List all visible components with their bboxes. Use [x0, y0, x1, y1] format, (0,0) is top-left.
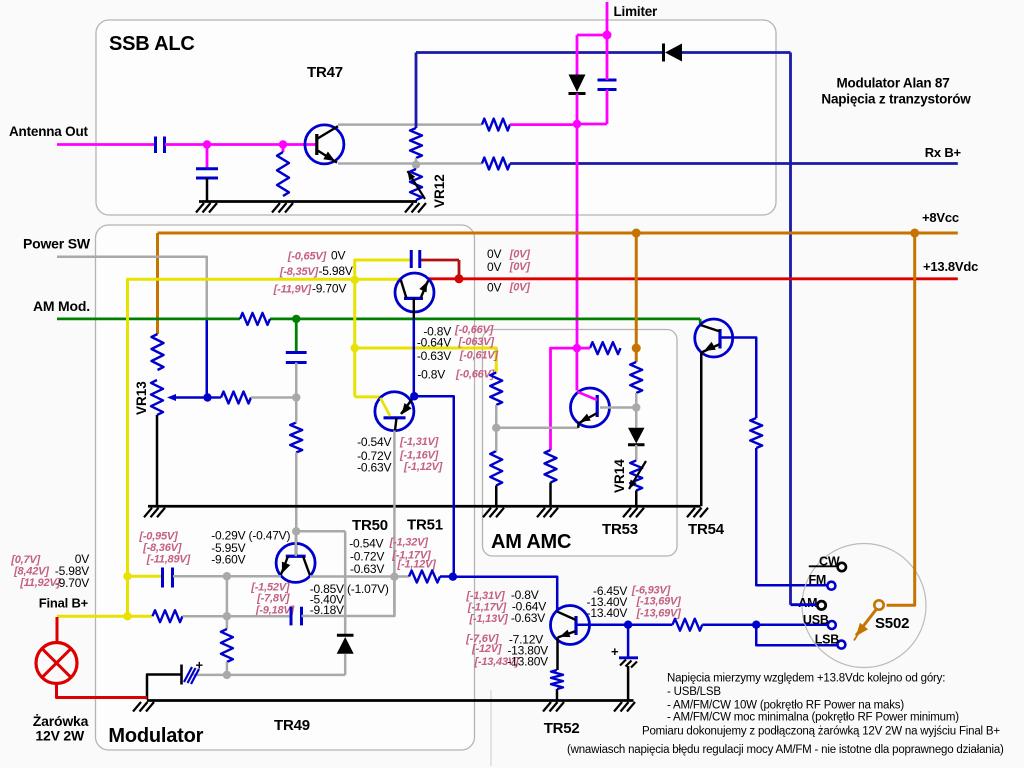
wire antenna node (magenta) [165, 143, 317, 146]
wire TR49 collector [295, 531, 298, 556]
svg-text:12V 2W: 12V 2W [35, 728, 85, 744]
wire yellow bus mid drop [353, 280, 356, 397]
svg-text:-0.63V: -0.63V [357, 460, 391, 474]
resistor R13 [630, 362, 642, 393]
wire C2 to ground (black) [206, 178, 209, 202]
svg-text:-0.54V: -0.54V [349, 537, 383, 551]
wire C9 stub (blue) [627, 625, 630, 658]
wire R9 to node (gray) [183, 615, 292, 618]
wire row1 to TR49 emitter [227, 575, 281, 578]
switch S502 outline [802, 544, 926, 668]
wire blue right drop [789, 53, 792, 605]
wire TR47 collector (gray) [338, 123, 482, 126]
svg-text:-9.70V: -9.70V [312, 282, 346, 296]
svg-text:+: + [611, 644, 619, 659]
diode D4 (points down) [628, 428, 645, 444]
svg-text:-5.98V: -5.98V [319, 264, 353, 278]
svg-text:[-1,31V]: [-1,31V] [465, 590, 505, 602]
wire green stub to C5 [295, 319, 298, 353]
svg-text:0V: 0V [487, 281, 501, 295]
capacitor C1 antenna series [154, 137, 157, 154]
svg-text:FM: FM [809, 573, 827, 587]
terminal USB [828, 621, 836, 629]
wire TR50 collector L (blue) [414, 396, 454, 576]
svg-text:+8Vcc: +8Vcc [922, 210, 959, 225]
node row1 gray [223, 572, 231, 580]
wire orange to S502 [887, 233, 915, 605]
wire limiter branch B (magenta) [606, 35, 609, 80]
svg-text:Napięcia mierzymy względem +13: Napięcia mierzymy względem +13.8Vdc kole… [667, 673, 945, 685]
svg-text:-0.63V: -0.63V [511, 611, 545, 625]
ground symbol TR54 [687, 508, 695, 518]
box Modulator section [96, 225, 475, 750]
wire magenta branch left [551, 348, 577, 450]
switch S502 common [874, 600, 883, 609]
wire orange drop left [156, 233, 159, 334]
svg-text:[-063V]: [-063V] [458, 336, 495, 348]
wire R19 to USB [702, 623, 827, 626]
svg-text:[-7,8V]: [-7,8V] [256, 593, 290, 605]
node TR50 collector [410, 392, 418, 400]
node yellow row2 [123, 612, 131, 620]
wire limiter bottom horizontal (magenta) [577, 123, 607, 126]
wire VR14 to ground [635, 491, 638, 507]
wire C7 to corner (gray) [302, 577, 395, 616]
svg-text:[0V]: [0V] [509, 282, 531, 294]
potentiometer VR13 [151, 380, 163, 415]
ground rail main [148, 505, 701, 508]
wire R11 to row3 [226, 662, 229, 675]
terminal LSB [837, 641, 845, 649]
svg-text:0V: 0V [487, 260, 501, 274]
node wiper junction [203, 393, 211, 401]
resistor R5 on AM line [240, 313, 270, 325]
wire blue to TR52 collector [453, 577, 557, 612]
node row2 gray [223, 612, 231, 620]
wire Power SW (gray) [57, 257, 207, 319]
wire TR53 collector (magenta) [576, 348, 579, 390]
wire Power SW lower (blue) [206, 319, 209, 398]
wire junction1 to C2 (magenta) [206, 145, 209, 169]
ground symbol TR52 [543, 702, 551, 712]
wire yellow bus [128, 279, 401, 616]
node yellow TR48 branch [351, 276, 359, 284]
svg-text:[-0,66V]: [-0,66V] [455, 369, 495, 381]
svg-text:[-0,65V]: [-0,65V] [287, 251, 327, 263]
svg-text:-0.63V: -0.63V [417, 349, 451, 363]
svg-text:(wnawiasch napięcia błędu regu: (wnawiasch napięcia błędu regulacji mocy… [567, 744, 1004, 756]
node C9 junction [624, 621, 632, 629]
svg-text:Final B+: Final B+ [39, 596, 89, 611]
terminal AM [817, 601, 825, 609]
wire TR50 emitter (gray) [393, 431, 396, 617]
svg-text:AM Mod.: AM Mod. [33, 298, 90, 314]
node +8Vcc junction right [910, 229, 919, 238]
resistor R19 USB line [673, 619, 703, 631]
resistor R16 [490, 451, 502, 486]
wire R10 to blue node [440, 575, 453, 578]
svg-text:[8,42V]: [8,42V] [13, 566, 49, 578]
svg-text:- AM/FM/CW moc minimalna (pokr: - AM/FM/CW moc minimalna (pokrętło RF Po… [667, 712, 959, 724]
svg-text:VR14: VR14 [612, 459, 627, 493]
wire +8Vcc rail (orange) [158, 232, 958, 235]
lamp bulb Zarowka [36, 643, 77, 684]
node row3 gray [223, 671, 231, 679]
diode D1 (points down) [569, 75, 586, 93]
capacitor C4 TR48 [410, 250, 413, 268]
wire yellow branch right [355, 348, 497, 373]
svg-text:[-1,13V]: [-1,13V] [468, 613, 508, 625]
svg-text:-13.40V: -13.40V [587, 606, 628, 620]
wire green to TR54 [699, 319, 702, 325]
svg-text:Rx B+: Rx B+ [925, 145, 962, 160]
wire bulb red top [56, 617, 59, 643]
svg-text:0V: 0V [487, 247, 501, 261]
svg-text:VR12: VR12 [432, 174, 447, 208]
svg-text:USB: USB [803, 613, 829, 627]
svg-text:TR50: TR50 [352, 517, 388, 534]
wire diode line (blue) [416, 51, 664, 54]
wire TR54 base (blue) [720, 338, 756, 419]
wire branch to diode chain [296, 530, 345, 533]
svg-text:[-11,9V]: [-11,9V] [273, 284, 312, 296]
wire R18 to ground [556, 689, 559, 701]
capacitor C2 to ground [196, 167, 218, 170]
wire C5 down (gray) [295, 363, 298, 398]
svg-text:[-12V]: [-12V] [471, 643, 502, 655]
svg-text:[0V]: [0V] [509, 261, 531, 273]
wire TR48 base (black) [413, 298, 415, 318]
wire node to R16 [495, 428, 498, 451]
transistor TR48 [395, 273, 434, 312]
transistor TR50 [375, 392, 414, 431]
svg-text:Antenna Out: Antenna Out [9, 124, 88, 139]
ground symbol R10 [483, 508, 491, 518]
svg-text:-0.64V: -0.64V [417, 336, 451, 350]
wire VR13 to ground [156, 415, 159, 506]
wire orange drop mid [635, 233, 638, 348]
svg-text:+: + [196, 658, 204, 673]
wire TR48 base to TR50 node (blue) [413, 319, 416, 397]
wire limiter stub top (magenta) [606, 2, 609, 35]
wire node to R8 [295, 398, 298, 423]
svg-text:Pomiaru dokonujemy z podłączon: Pomiaru dokonujemy z podłączoną żarówką … [642, 726, 1000, 738]
svg-text:TR53: TR53 [602, 521, 638, 538]
ground symbol under VR12 [405, 203, 413, 213]
svg-text:0V: 0V [331, 249, 345, 263]
svg-text:+13.8Vdc: +13.8Vdc [923, 259, 978, 274]
resistor R14 [545, 450, 557, 483]
svg-text:-0.63V: -0.63V [350, 562, 384, 576]
svg-text:TR54: TR54 [688, 521, 725, 538]
wire C8 black lead [147, 675, 182, 700]
resistor R12 to +8Vcc [590, 342, 621, 354]
terminal FM [827, 582, 835, 590]
wire R7 to gray node [251, 396, 296, 399]
node yellow row1 [123, 572, 131, 580]
resistor R7 wiper [221, 392, 251, 404]
resistor R15 [490, 373, 502, 406]
wire yellow to bulb [57, 615, 128, 618]
svg-text:Power SW: Power SW [23, 236, 91, 252]
wire bulb red bottom [57, 684, 148, 698]
ground symbol R11 [537, 508, 545, 518]
wire R8 to TR49 collector [295, 453, 298, 557]
transistor TR54 [695, 319, 733, 357]
resistor R17 TR54 base [750, 418, 762, 448]
wire Rx B+ (blue) [510, 162, 958, 165]
wire R17 down to FM [756, 448, 826, 585]
node yellow mid junction [351, 344, 359, 352]
wire TR49 right limb to node [310, 575, 409, 578]
divider line bottom [490, 690, 492, 766]
wire R7 wiper stub [208, 396, 222, 398]
wire TR53 base (gray) [600, 406, 636, 409]
wire row3 horizontal [194, 674, 346, 677]
svg-text:[-1,12V]: [-1,12V] [403, 461, 443, 473]
svg-text:AM AMC: AM AMC [491, 531, 571, 553]
wire red cap link [458, 260, 461, 279]
wire D4 to VR14 [635, 445, 638, 461]
resistor R10 TR51 [409, 571, 440, 583]
wire R4 to node [415, 158, 417, 165]
svg-text:[0,7V]: [0,7V] [10, 554, 40, 566]
resistor R9 [153, 610, 183, 622]
svg-text:-0.54V: -0.54V [357, 435, 391, 449]
svg-text:[-11,89V]: [-11,89V] [146, 554, 191, 566]
svg-text:[-1,17V]: [-1,17V] [467, 602, 507, 614]
node antenna junction 1 [203, 140, 211, 148]
transistor TR53 [571, 388, 610, 427]
node TR53 base [632, 403, 640, 411]
wire TR47 emitter (gray) [338, 162, 482, 165]
svg-text:[-1,31V]: [-1,31V] [399, 436, 439, 448]
node AM line junction [292, 315, 300, 323]
box AM AMC section [483, 330, 678, 557]
wire VR12 to ground [415, 200, 417, 202]
capacitor C8 electrolytic [180, 665, 183, 685]
wire R15 to node (gray) [495, 405, 498, 428]
svg-text:[-1,12V]: [-1,12V] [397, 559, 437, 571]
wire +13.8Vdc rail (red) [428, 277, 957, 280]
box SSB ALC section [96, 20, 776, 215]
svg-text:- USB/LSB: - USB/LSB [667, 686, 721, 698]
resistor R18 TR52 emitter [551, 670, 563, 689]
ground symbol C9 [614, 702, 622, 712]
svg-text:-9.70V: -9.70V [55, 576, 89, 590]
potentiometer VR14 [630, 461, 642, 491]
svg-text:Limiter: Limiter [614, 4, 659, 19]
svg-text:TR47: TR47 [307, 64, 343, 81]
svg-text:-13.80V: -13.80V [507, 655, 548, 669]
capacitor C6 [161, 568, 164, 588]
svg-text:Napięcia z tranzystorów: Napięcia z tranzystorów [821, 92, 971, 107]
wire TR52 base (blue) [576, 623, 673, 626]
wire diode chain vertical upper [344, 531, 347, 636]
ground rail bottom [147, 699, 634, 702]
svg-text:VR13: VR13 [134, 381, 149, 415]
capacitor C5 [286, 351, 307, 354]
wire R14 to ground [549, 483, 552, 507]
svg-text:[-13,69V]: [-13,69V] [636, 596, 682, 608]
wire R2 to limiter net (magenta) [510, 123, 577, 126]
svg-text:Modulator Alan 87: Modulator Alan 87 [836, 76, 949, 91]
ground symbol bottom left [133, 702, 141, 712]
svg-text:AM: AM [798, 596, 817, 610]
capacitor C7 [290, 607, 293, 626]
wire blue drop to R4 [415, 53, 418, 129]
svg-text:- AM/FM/CW 10W (pokrętło RF Po: - AM/FM/CW 10W (pokrętło RF Power na mak… [667, 700, 904, 712]
wire C6 to node (gray) [173, 575, 227, 578]
wire R13 to base node [635, 393, 638, 428]
svg-text:-0.8V: -0.8V [417, 368, 445, 382]
wire TR52 emitter black [556, 638, 559, 671]
node TR53 emitter net [492, 424, 500, 432]
resistor R1 base bias [277, 152, 289, 196]
node magenta AM AMC [573, 344, 581, 352]
wire limiter vertical to AM AMC (magenta) [576, 124, 579, 348]
wire magenta to R12 [577, 347, 590, 350]
node antenna junction 2 [279, 140, 287, 148]
transistor TR47 [305, 125, 344, 164]
wire C9 to ground [627, 666, 630, 701]
ground symbol under R1 [272, 203, 280, 213]
node gray AM node [292, 393, 300, 401]
ground symbol under C2 [196, 203, 204, 213]
wire antenna out (magenta) [57, 143, 155, 146]
node +13.8 junction [455, 274, 464, 283]
wire diode chain vertical lower [344, 654, 347, 675]
capacitor C9 electrolytic [619, 656, 638, 659]
wire junction2 to R1 (magenta) [282, 145, 285, 153]
svg-text:TR52: TR52 [544, 720, 580, 737]
svg-text:-9.60V: -9.60V [211, 553, 245, 567]
node TR51 left [390, 573, 398, 581]
svg-text:[-13,69V]: [-13,69V] [636, 608, 682, 620]
svg-text:[-9,18V]: [-9,18V] [255, 605, 295, 617]
svg-text:[-1,16V]: [-1,16V] [399, 450, 439, 462]
node orange AM AMC [632, 344, 641, 353]
resistor R3 emitter [482, 158, 510, 170]
node TR51 blue [449, 573, 457, 581]
node limiter bottom junction [573, 120, 581, 128]
wire USB to LSB branch [756, 625, 837, 646]
svg-text:[-8,36V]: [-8,36V] [142, 542, 182, 554]
wire yellow to C4 [355, 260, 411, 280]
svg-text:Modulator: Modulator [108, 725, 203, 747]
node USB junction [752, 621, 760, 629]
switch S502 wiper arm [856, 609, 877, 636]
resistor R11 vertical [221, 629, 233, 662]
wire emitter row (gray) [496, 427, 578, 430]
transistor TR49 [276, 543, 315, 582]
svg-text:SSB ALC: SSB ALC [109, 33, 195, 55]
svg-text:TR51: TR51 [407, 517, 443, 534]
resistor R2 collector [482, 119, 510, 131]
ground symbol VR13 [144, 508, 152, 518]
wire TR54 emitter to ground [700, 352, 703, 506]
diode D3 (points up) [337, 634, 354, 637]
node +8Vcc junction mid [632, 229, 641, 238]
wire AM Mod line (green) [57, 317, 240, 320]
svg-text:[-0,66V]: [-0,66V] [454, 324, 494, 336]
node limiter top junction [603, 31, 612, 40]
wire limiter top horizontal (magenta) [577, 34, 607, 37]
svg-text:[-1,32V]: [-1,32V] [389, 537, 429, 549]
potentiometer VR12 [410, 169, 422, 200]
svg-text:[-0,61V]: [-0,61V] [459, 350, 499, 362]
wire yellow row2 to R9 [128, 615, 153, 618]
ground symbol VR14 [623, 508, 631, 518]
svg-text:[-8,35V]: [-8,35V] [279, 266, 319, 278]
svg-text:LSB: LSB [815, 632, 840, 646]
resistor R8 down [290, 423, 302, 453]
wire yellow to TR50 base [355, 395, 381, 398]
resistor R4 [410, 128, 422, 158]
capacitor C3 limiter [598, 79, 617, 82]
svg-text:[0V]: [0V] [509, 249, 531, 261]
node VR12 top (gray) [412, 161, 420, 169]
wire AM terminal (blue) [791, 603, 818, 606]
wire gray chain row1-row2 [226, 576, 229, 629]
terminal CW [838, 563, 846, 571]
svg-text:[-0,95V]: [-0,95V] [138, 531, 178, 543]
svg-text:S502: S502 [875, 615, 909, 632]
transistor TR52 [551, 606, 590, 645]
ground rail SSB ALC [199, 200, 417, 203]
wire yellow row1 to C6 [128, 575, 163, 578]
node TR49 collector branch [292, 527, 300, 535]
wire R16 to ground [495, 486, 498, 507]
resistor R6 from +8Vcc [152, 334, 164, 370]
wire D1 to node (magenta) [576, 94, 579, 125]
diode D2 limiter (points left) [662, 44, 665, 62]
svg-text:TR49: TR49 [274, 717, 310, 734]
wire limiter branch A upper (magenta) [576, 35, 579, 75]
